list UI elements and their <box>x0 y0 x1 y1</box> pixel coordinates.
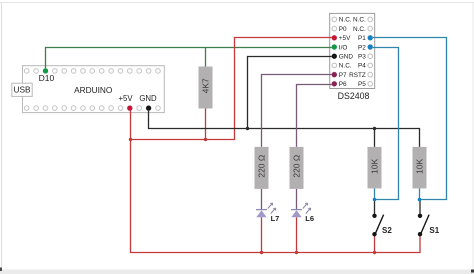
svg-text:P1: P1 <box>358 35 366 42</box>
svg-text:GND: GND <box>139 94 157 103</box>
svg-text:N.C.: N.C. <box>339 17 352 24</box>
svg-text:N.C.: N.C. <box>353 17 366 24</box>
svg-text:P5: P5 <box>358 81 366 88</box>
svg-text:P2: P2 <box>358 44 366 51</box>
svg-text:S2: S2 <box>382 226 392 235</box>
svg-text:+5V: +5V <box>339 35 351 42</box>
svg-text:P3: P3 <box>358 54 366 61</box>
svg-text:P7: P7 <box>339 72 347 79</box>
svg-text:S1: S1 <box>429 226 439 235</box>
svg-text:USB: USB <box>13 85 31 95</box>
svg-text:N.C.: N.C. <box>339 63 352 70</box>
svg-text:4K7: 4K7 <box>200 78 210 93</box>
svg-text:220 Ω: 220 Ω <box>291 155 301 178</box>
svg-text:GND: GND <box>339 54 354 61</box>
svg-text:RSTZ: RSTZ <box>349 72 366 79</box>
svg-text:P0: P0 <box>339 26 347 33</box>
svg-text:L7: L7 <box>271 214 280 223</box>
svg-text:10K: 10K <box>369 159 379 174</box>
svg-text:220 Ω: 220 Ω <box>256 155 266 178</box>
svg-text:N.C.: N.C. <box>353 26 366 33</box>
svg-text:I/O: I/O <box>339 44 348 51</box>
svg-text:P6: P6 <box>339 81 347 88</box>
svg-text:DS2408: DS2408 <box>338 91 370 101</box>
svg-text:10K: 10K <box>414 159 424 174</box>
svg-text:L6: L6 <box>305 214 314 223</box>
svg-text:D10: D10 <box>39 73 55 83</box>
svg-text:ARDUINO: ARDUINO <box>74 85 113 95</box>
svg-text:+5V: +5V <box>118 94 133 103</box>
svg-text:P4: P4 <box>358 63 366 70</box>
